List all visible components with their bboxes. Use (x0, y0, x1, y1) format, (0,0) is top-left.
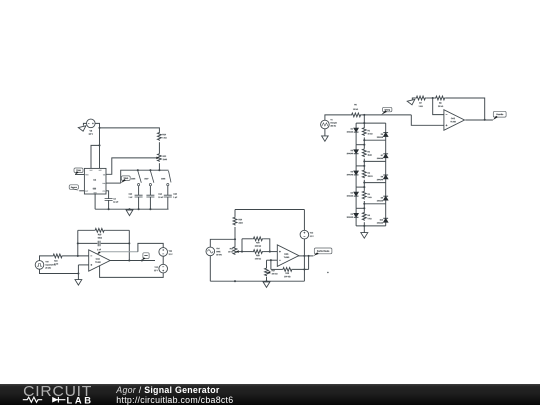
wire to R20 (middle) (242, 238, 252, 240)
wire U3 CTL to C2 (106, 191, 109, 199)
footer bar (0, 384, 540, 405)
flag TRIG (timing node) (121, 176, 130, 181)
wire center column top (363, 115, 365, 127)
junction R20/R28 (269, 251, 271, 253)
diode D10 (383, 217, 388, 219)
switch SW6 (138, 171, 142, 183)
junction feedback / output (128, 259, 130, 261)
wire R28 to OA5 + (263, 251, 277, 253)
wire top rail (middle block) (235, 209, 304, 211)
wire left rung 3 (356, 165, 364, 167)
wire left rung 5 (356, 207, 364, 209)
wire to V14 (210, 239, 235, 247)
wire left column to D2 (355, 145, 357, 150)
wire V13 to bottom rail (303, 239, 305, 281)
capacitor C10 (135, 195, 143, 197)
ground at V1 (322, 136, 329, 141)
wire V+ supply (highlighted) (100, 251, 138, 253)
wire left rung 2 (356, 144, 364, 146)
wire Triang net (362, 114, 412, 116)
capacitor C14 (146, 195, 154, 197)
wire feedback to output (308, 256, 310, 270)
potentiometer R24 (middle) (233, 246, 237, 254)
wire C2 to bottom rail (108, 200, 110, 209)
square source V10 (35, 261, 44, 270)
wire U3 THR to timing node (106, 182, 121, 184)
junction ground / bottom rail (128, 208, 130, 210)
capacitor C15 (164, 195, 172, 197)
junction ground (middle) (265, 280, 267, 282)
wire VCC column (99, 128, 101, 168)
junction SW6 top (137, 169, 139, 171)
resistor R8 (435, 96, 446, 100)
wire R5 to bottom (363, 222, 365, 226)
junction rung 1 (363, 122, 365, 124)
wire R24 wiper (239, 251, 242, 253)
resistor R28 (252, 250, 263, 254)
wire SW8 to C15 (167, 186, 169, 196)
junction feedback right (128, 242, 130, 244)
junction SW7 top (149, 169, 151, 171)
wire switch rail (121, 170, 169, 183)
wire ground to R7 (412, 98, 415, 100)
wire C14 to bottom rail (149, 197, 151, 209)
wire D5 down (355, 217, 357, 226)
ground (OA6 block) (75, 280, 82, 286)
capacitor C2 (105, 199, 113, 201)
wire top rail to R20 (100, 128, 160, 132)
wire V+ to V11 (138, 243, 163, 251)
wire right column to D8 (385, 161, 387, 175)
wire OA5 output (298, 255, 313, 257)
resistor R5 (362, 212, 366, 221)
junction C16 branch (77, 242, 79, 244)
diode D9 (383, 195, 388, 197)
resistor R2 (362, 148, 366, 157)
junction C2 / bottom rail (108, 208, 110, 210)
wire OA6 + input (78, 264, 88, 266)
resistor R4 (362, 191, 366, 200)
CircuitLab logo (22, 384, 97, 405)
junction feedback / output (308, 255, 310, 257)
junction V14 branch (234, 238, 236, 240)
junction switch rail / R22 (158, 169, 160, 171)
wire right rung 2 (364, 139, 385, 141)
wire D6 down (385, 137, 387, 141)
switch SW8 (169, 171, 172, 183)
potentiometer R22 (158, 153, 162, 162)
wire SW6 to C10 (138, 186, 140, 196)
wire left column to D1 (355, 123, 357, 128)
diode D5 (354, 213, 359, 217)
wire rail to R26 (234, 210, 236, 217)
wire - branch to OA2 (433, 98, 444, 115)
wire to R28 (242, 251, 252, 253)
wire V10 to R24 (40, 256, 53, 261)
wire ladder bottom rail (356, 225, 386, 227)
flag TRIG (left) (74, 168, 83, 173)
wire V12 to OA6 V- pin (100, 265, 164, 277)
wire to R29 (271, 268, 282, 270)
flag Sortie Route (314, 248, 332, 254)
V+ power stub OA6 (97, 251, 101, 254)
resistor R6 (351, 113, 362, 117)
resistor R29 (282, 268, 292, 272)
IC U3 555 timer (84, 168, 106, 194)
resistor R3 (362, 169, 366, 178)
potentiometer R27 (265, 268, 269, 276)
wire right rung 5 (364, 203, 385, 205)
resistor R26 (233, 216, 237, 225)
wire bottom rail (555 block) (95, 208, 168, 210)
junction feedback / input (77, 255, 79, 257)
wire V5 to ground (83, 123, 86, 125)
diode D7 (383, 153, 388, 155)
wire to C16 (78, 242, 98, 244)
resistor R7 (415, 96, 426, 100)
ground (ladder) (361, 233, 368, 239)
wire D8 down (385, 179, 387, 183)
resistor R25 (94, 228, 105, 232)
wire C15 to bottom rail (167, 197, 169, 209)
wire R20 to + node (263, 239, 269, 252)
wire D4 down (355, 196, 357, 208)
wire right column to D9 (385, 183, 387, 197)
wire D1 down (355, 132, 357, 145)
probe flag on OA6 output (143, 253, 149, 259)
wire OA5 - input (267, 259, 278, 261)
wire left rung 4 (356, 186, 364, 188)
wire V5 to top rail (95, 123, 99, 128)
wire to ladder ground (363, 226, 365, 233)
op-amp OA2 (444, 110, 465, 131)
wire R25 to feedback right leg (105, 229, 129, 231)
wire R7 to R8 (426, 97, 434, 99)
wire TRIG flag stub (75, 174, 84, 176)
diode D6 (383, 132, 388, 134)
wire + input to ground (77, 265, 79, 280)
wire right column to D10 (385, 204, 387, 219)
op-amp OA5 (277, 245, 299, 267)
flag Square (69, 185, 78, 190)
junction OA2 - node (432, 97, 434, 99)
wire wiper node up (241, 239, 243, 252)
ground (555 block) (126, 210, 133, 216)
wire D7 down (385, 158, 387, 162)
diode D2 (354, 150, 359, 154)
wire R27 to bottom rail (266, 277, 268, 281)
op-amp OA6 (89, 250, 110, 271)
junction V10 return (77, 272, 79, 274)
ground at R7 (407, 99, 415, 104)
wire R29 branch up (270, 260, 272, 269)
wire R8 feedback leg (446, 98, 485, 120)
wire SW7 to C14 (149, 186, 151, 196)
junction rail riser (303, 268, 305, 270)
junction ladder top (363, 114, 365, 116)
flag Vsortie (493, 111, 506, 117)
junction wiper node (241, 251, 243, 253)
wire V1 to R6 (325, 115, 351, 120)
sine source V14 (206, 247, 215, 256)
diode D4 (354, 192, 359, 196)
wire D9 down (385, 200, 387, 204)
wire feedback left leg (77, 230, 79, 256)
wire R26 to R24 pot (234, 227, 236, 246)
wire R1 to R2 (363, 137, 365, 148)
voltage source V5 (87, 119, 96, 128)
wire D3 down (355, 175, 357, 187)
wire R4 to R5 (363, 201, 365, 212)
wire V1 to ground (324, 129, 326, 136)
flag Triang (383, 107, 392, 112)
wire rail to V13 (303, 210, 305, 231)
wire Square flag stub (79, 190, 84, 192)
switch SW7 (150, 171, 154, 183)
diode D1 (354, 128, 359, 132)
voltage source V13 (300, 230, 309, 239)
wire OA2 output (465, 119, 493, 121)
capacitor C16 (98, 241, 100, 247)
resistor R24 (52, 254, 62, 258)
wire feedback right leg (128, 230, 130, 260)
wire left column to D3 (355, 166, 357, 171)
wire R2 to R3 (363, 159, 365, 170)
wire R22 wiper to U3 DIS pin (106, 158, 156, 174)
resistor R20 (158, 132, 162, 141)
wire R29 to output leg (293, 268, 309, 270)
junction feedback tap (270, 259, 272, 261)
resistor R1 (362, 127, 366, 136)
junction R24 pot / rail (234, 280, 236, 282)
junction probe anchor (141, 259, 143, 261)
wire right rung 4 (364, 182, 385, 184)
wire V10 bottom return (40, 269, 79, 273)
wire right column to D7 (385, 140, 387, 154)
wire V11 to V12 (162, 256, 164, 264)
wire right column to D6 (385, 123, 387, 133)
wire - input to R27 (266, 260, 268, 268)
wire R3 to R4 (363, 180, 365, 191)
wire V14 to bottom rail (209, 256, 211, 282)
wire OA6 output (110, 260, 155, 262)
wire left column to D5 (355, 208, 357, 213)
wire R24 to OA6 inverting input (63, 255, 89, 257)
junction node VCC (98, 127, 100, 129)
junction RESET branch (98, 144, 100, 146)
wire right rung 3 (364, 160, 385, 162)
wire D2 down (355, 154, 357, 166)
wire D10 down (385, 222, 387, 226)
diode D8 (383, 174, 388, 176)
voltage source V12 (159, 264, 168, 273)
wire RESET branch (91, 145, 100, 168)
diode D3 (354, 171, 359, 175)
wire U3 GND pin (94, 194, 96, 209)
resistor R20 (middle) (252, 237, 263, 241)
wire to R25 (78, 229, 94, 231)
ground at V5 (78, 126, 86, 131)
wire left column to D4 (355, 187, 357, 192)
wire Triang to OA2 + (411, 115, 444, 125)
svg-text:LAB: LAB (67, 394, 94, 405)
wire C10 to bottom rail (138, 197, 140, 209)
triangle source V1 (321, 120, 330, 129)
wire R22 to switch rail (158, 163, 160, 170)
wire C16 to feedback right leg (101, 242, 130, 244)
voltage source V11 (159, 248, 168, 257)
junction V13 / output (303, 255, 305, 257)
wire ladder rung 1 (356, 122, 386, 124)
ground (middle block) (263, 282, 270, 288)
junction ladder bottom (363, 225, 365, 227)
junction feedback / output (OA2) (484, 119, 486, 121)
wire R20 to R22 (158, 142, 160, 153)
wire bottom rail (middle block) (210, 280, 304, 282)
